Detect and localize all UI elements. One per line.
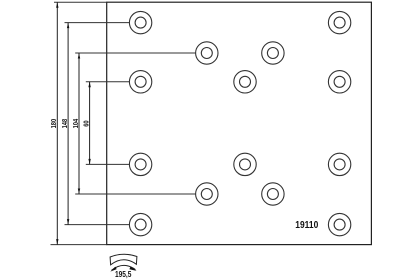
lining cross-section arc symbol <box>110 254 137 265</box>
hole H6 (row3 middle) <box>234 71 256 93</box>
svg-text:195,5: 195,5 <box>115 270 132 279</box>
dimension line 180 <box>56 2 58 244</box>
dimension line 104 <box>78 53 80 194</box>
svg-text:148: 148 <box>61 118 69 128</box>
radius arrow head right <box>129 267 136 271</box>
lining outline rectangle <box>107 2 372 244</box>
hole H1 (row1 left) <box>129 11 151 33</box>
hole H7 (row3 right) <box>328 71 350 93</box>
leader row3 <box>86 81 130 83</box>
radius arrow head left <box>110 267 116 272</box>
hole H11 (row5 left-mid) <box>196 183 218 205</box>
leader row6 <box>65 224 130 226</box>
svg-text:180: 180 <box>50 118 58 128</box>
hole H2 (row1 right) <box>328 11 350 33</box>
leader top edge extension <box>54 1 107 3</box>
hole H5 (row3 left) <box>129 71 151 93</box>
hole H4 (row2 right-mid) <box>262 42 284 64</box>
leader bottom edge extension <box>51 244 107 246</box>
hole H9 (row4 middle) <box>234 153 256 175</box>
leader row4 <box>86 163 130 165</box>
leader row1 <box>65 22 130 24</box>
hole H14 (row6 right) <box>328 213 350 235</box>
leader row5 <box>75 193 196 195</box>
dimension line 60 <box>88 82 90 165</box>
hole H10 (row4 right) <box>328 153 350 175</box>
hole H3 (row2 left-mid) <box>196 42 218 64</box>
svg-text:104: 104 <box>72 118 80 128</box>
hole H8 (row4 left) <box>129 153 151 175</box>
leader row2 <box>75 52 196 54</box>
dimension line 148 <box>67 23 69 225</box>
svg-text:19110: 19110 <box>295 219 318 231</box>
svg-text:60: 60 <box>83 120 91 127</box>
hole H13 (row6 left) <box>129 213 151 235</box>
hole H12 (row5 right-mid) <box>262 183 284 205</box>
radius arrow arc <box>112 265 136 270</box>
